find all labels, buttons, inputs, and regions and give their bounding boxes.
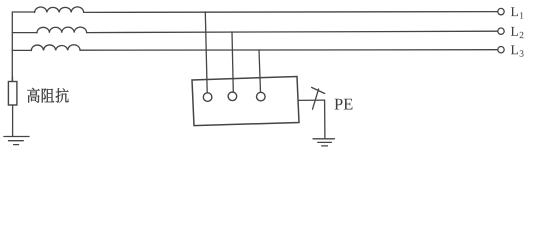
resistor high impedance (8, 82, 17, 106)
PE wire vertical (324, 100, 326, 138)
label L1 (511, 7, 523, 18)
wire stub to winding 2 (12, 32, 37, 34)
wire line L3 (80, 49, 498, 52)
PE wire horizontal (298, 99, 324, 101)
equipment enclosure box (192, 77, 299, 126)
label L3 (511, 45, 524, 56)
wire drop from L2 to equipment (232, 32, 233, 92)
wire stub to winding 1 (12, 11, 34, 13)
wire line L1 (84, 11, 498, 14)
label L2 (511, 27, 524, 38)
disconnect link tick (312, 87, 325, 93)
equipment terminal circle 1 (203, 93, 212, 102)
wire stub to winding 3 (12, 49, 31, 51)
neutral star-point bus wire (11, 12, 13, 82)
equipment terminal circle 3 (257, 92, 266, 101)
disconnect link slash (313, 89, 319, 109)
terminal circle L3 (498, 47, 504, 53)
wire drop from L1 to equipment (205, 12, 207, 93)
terminal circle L2 (498, 28, 504, 34)
label 高阻抗 (high impedance) (27, 88, 68, 103)
inductor winding phase 3 (31, 45, 80, 51)
wire drop from L3 to equipment (259, 50, 261, 92)
wire from impedance to ground (12, 105, 14, 136)
label PE (334, 99, 352, 110)
equipment terminal circle 2 (228, 92, 237, 101)
wire line L2 (87, 31, 498, 32)
wire from bus to impedance (12, 77, 14, 82)
ground symbol at impedance (4, 137, 29, 145)
terminal circle L1 (498, 8, 504, 14)
inductor winding phase 1 (35, 7, 84, 13)
ground symbol at PE (313, 139, 335, 146)
inductor winding phase 2 (37, 27, 87, 33)
